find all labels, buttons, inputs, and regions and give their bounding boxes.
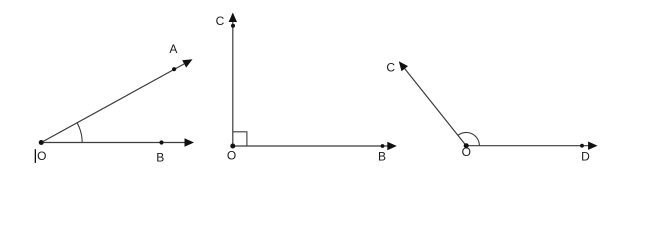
arrowhead ray OC (right diagram) (399, 61, 408, 71)
wire ray O to C (vertical) (232, 21, 234, 146)
node O (right) (464, 143, 469, 148)
wire ray O to B (horizontal) (41, 142, 186, 144)
arrowhead ray OD (588, 142, 598, 150)
text cursor bar (35, 149, 36, 163)
svg-text:C: C (386, 60, 395, 74)
node B (left) (159, 140, 163, 144)
wire ray O to C (up-left) (404, 68, 466, 145)
wire ray O to A (slanted) (41, 64, 184, 143)
arrowhead ray OA (182, 59, 192, 67)
svg-text:A: A (169, 42, 177, 56)
node O (left) (39, 140, 44, 145)
wire ray O to B (horizontal) (233, 145, 389, 147)
node C (middle) (231, 24, 235, 28)
svg-text:C: C (216, 14, 225, 28)
svg-text:B: B (378, 150, 386, 164)
svg-text:O: O (227, 148, 236, 162)
arc angle AOB (77, 123, 82, 143)
arrowhead ray OC (229, 13, 237, 23)
arrowhead ray OB (middle) (387, 142, 397, 150)
node O (middle) (230, 144, 235, 149)
svg-text:D: D (581, 150, 590, 164)
wire ray O to D (horizontal) (466, 145, 589, 147)
node D (580, 144, 584, 148)
node B (middle) (381, 144, 385, 148)
svg-text:B: B (156, 150, 164, 164)
node A (172, 67, 176, 71)
arc angle COD (458, 132, 480, 145)
svg-text:O: O (462, 145, 471, 159)
arrowhead ray OB (185, 138, 195, 146)
svg-text:O: O (37, 149, 46, 163)
right-angle square marker (233, 132, 247, 146)
